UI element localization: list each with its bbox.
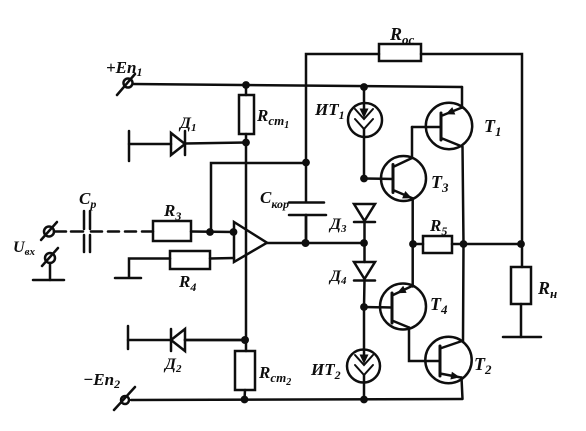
wire R4 right to op-amp <box>210 257 234 260</box>
transistor T1 <box>412 87 472 244</box>
capacitor Скор <box>289 203 326 244</box>
svg-text:Rос: Rос <box>389 24 415 47</box>
svg-text:Д4: Д4 <box>328 268 347 287</box>
arrow T4 emitter (PNP) <box>397 286 407 294</box>
svg-text:Rн: Rн <box>537 278 557 301</box>
resistor Rст1 <box>239 95 254 134</box>
terminal +Еп1 input pin <box>117 74 135 95</box>
resistor Rст2 <box>235 351 255 390</box>
wire top supply rail +Еп1 <box>133 84 462 87</box>
svg-text:Скор: Скор <box>260 188 289 211</box>
wire op-amp output <box>267 242 364 245</box>
arrow ИТ2 <box>360 355 369 365</box>
svg-text:Д3: Д3 <box>328 216 347 235</box>
svg-text:+Еп1: +Еп1 <box>106 58 142 79</box>
svg-text:Т2: Т2 <box>474 354 492 377</box>
resistor R5 <box>423 236 452 253</box>
svg-text:ИТ2: ИТ2 <box>310 360 341 382</box>
svg-text:Uвх: Uвх <box>13 239 35 258</box>
wire bottom supply rail -Еп2 <box>131 399 462 400</box>
svg-text:Д2: Д2 <box>163 356 182 375</box>
wire Rн bottom <box>520 304 523 337</box>
svg-text:Т3: Т3 <box>431 172 449 195</box>
wire Rст1 top to rail <box>245 85 248 95</box>
wire Roc right to output rail <box>421 54 522 267</box>
ground R4 <box>115 277 141 280</box>
transistor T4 <box>364 284 440 362</box>
svg-text:R5: R5 <box>429 216 447 238</box>
svg-text:Д1: Д1 <box>178 115 196 134</box>
op-amp U1 <box>234 222 267 262</box>
arrow ИТ1 <box>360 109 369 119</box>
ground input <box>33 263 64 280</box>
wire Roc left to feedback column <box>306 54 379 202</box>
svg-text:ИТ1: ИТ1 <box>314 100 345 122</box>
wire R5 left <box>413 243 423 246</box>
resistor Rн <box>511 267 531 304</box>
wire terminal to Ср dashed <box>54 230 83 233</box>
arrow T1 emitter (PNP) <box>446 107 456 114</box>
svg-text:Rст2: Rст2 <box>258 363 291 388</box>
current source ИТ2 <box>347 307 380 400</box>
svg-text:R4: R4 <box>178 272 196 294</box>
current source ИТ1 <box>348 87 382 178</box>
diode Д4 <box>354 262 375 307</box>
terminal Uвх lower <box>42 248 58 266</box>
svg-text:−Еп2: −Еп2 <box>83 370 120 391</box>
resistor R4 <box>170 251 210 269</box>
wire feedback to input column <box>211 163 306 232</box>
wire Rст2 bottom <box>243 390 246 400</box>
resistor R3 <box>153 221 191 241</box>
transistor T2 <box>425 244 471 399</box>
diode Д2 <box>128 326 245 351</box>
wire R4 left to ground <box>129 259 170 278</box>
wire R3 to op-amp <box>191 230 234 233</box>
resistor Roc <box>379 44 421 61</box>
wire bias column Rст1 to Rст2 <box>245 134 248 351</box>
svg-text:Rст1: Rст1 <box>256 106 289 131</box>
wire Ср to R3 dashed <box>91 230 153 233</box>
arrow T3 emitter (NPN) <box>402 191 412 198</box>
capacitor Ср <box>84 211 90 252</box>
diode Д3 <box>354 204 375 262</box>
svg-text:Ср: Ср <box>79 189 96 211</box>
arrow T2 emitter (NPN) <box>450 372 460 380</box>
svg-text:Т4: Т4 <box>430 294 448 317</box>
svg-text:Т1: Т1 <box>484 116 502 139</box>
transistor T3 <box>364 127 426 287</box>
svg-text:R3: R3 <box>163 201 181 223</box>
ground Rн <box>503 336 541 339</box>
wire R5 right to output node <box>452 243 522 246</box>
diode Д1 <box>129 131 246 161</box>
node junction dots <box>206 81 525 403</box>
terminal -Еп2 <box>114 387 135 410</box>
terminal Uвх upper <box>41 222 57 240</box>
